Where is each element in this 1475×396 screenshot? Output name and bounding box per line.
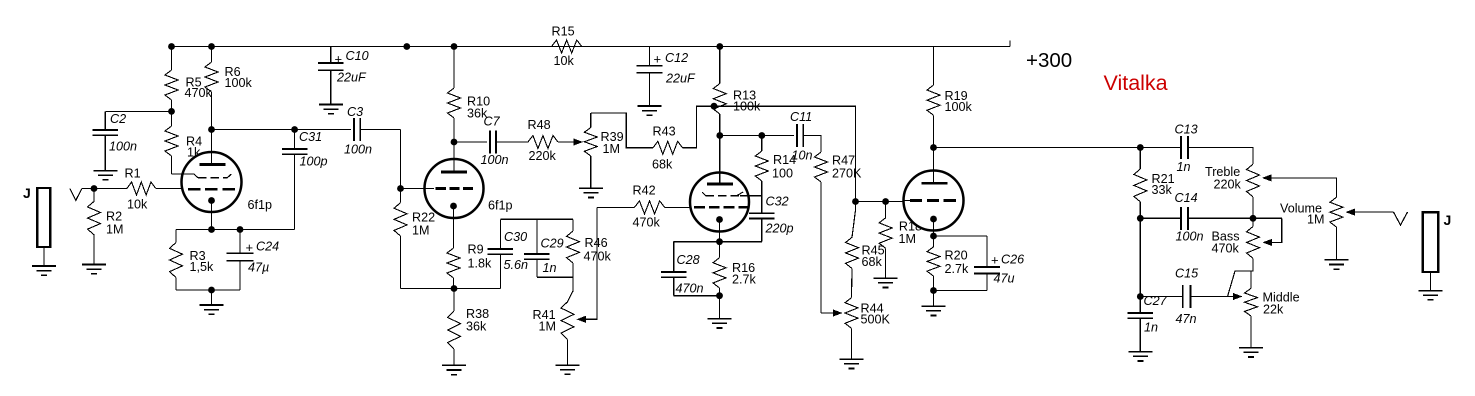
svg-text:C11: C11 xyxy=(790,110,812,124)
wire C28 bottom row xyxy=(674,295,720,297)
svg-text:Vitalka: Vitalka xyxy=(1104,71,1168,95)
label C28 xyxy=(676,253,704,296)
resistor R47 xyxy=(815,152,828,313)
svg-text:2.7k: 2.7k xyxy=(732,273,757,287)
label R14 xyxy=(772,153,796,181)
wire input node xyxy=(82,188,127,190)
svg-text:100k: 100k xyxy=(225,76,253,90)
wire Bass to Middle top xyxy=(1228,258,1254,296)
tube U1 plate xyxy=(200,130,226,165)
label R48 xyxy=(528,118,557,163)
wiper arrow R44 xyxy=(833,309,843,316)
label C32 xyxy=(765,195,794,236)
resistor R10 xyxy=(448,47,461,143)
node input xyxy=(91,185,98,192)
wire C13 to Treble xyxy=(1188,148,1253,165)
capacitor C2 xyxy=(93,111,119,170)
node R13 tap xyxy=(711,103,718,110)
wiper arrow R39 xyxy=(574,138,584,145)
tube U4 envelope xyxy=(904,171,964,231)
svg-text:R9: R9 xyxy=(468,243,484,257)
wiper R41 wire xyxy=(586,207,597,319)
wire R48 to wiper R39 xyxy=(558,141,574,143)
label Bass xyxy=(1212,230,1240,256)
label R10 xyxy=(467,95,490,121)
wire C11 to R47 xyxy=(803,136,821,153)
node plate4 xyxy=(930,144,937,151)
label R41 xyxy=(533,308,557,334)
label R4 xyxy=(186,135,202,160)
tube U3 control grid xyxy=(694,206,749,209)
label C15 xyxy=(1175,267,1199,327)
label R44 xyxy=(861,302,891,327)
label +300 xyxy=(1026,49,1072,72)
ground R20 xyxy=(922,306,946,315)
svg-text:36k: 36k xyxy=(466,320,487,334)
wiper Volume wire xyxy=(1355,211,1394,213)
wiper arrow Treble xyxy=(1262,174,1272,181)
wire R13 tap to R45 xyxy=(714,106,856,201)
svg-text:22uF: 22uF xyxy=(336,71,367,85)
resistor R5 xyxy=(165,47,178,112)
node rail-R13 xyxy=(716,43,723,50)
terminal V output xyxy=(1394,212,1408,225)
resistor R14 xyxy=(755,136,768,196)
svg-text:100n: 100n xyxy=(1176,230,1204,244)
terminal V input xyxy=(70,189,82,201)
tube U2 grid xyxy=(425,188,474,190)
capacitor C31 xyxy=(282,130,308,230)
wire cathode1 row xyxy=(176,229,295,231)
jack J output xyxy=(1423,212,1438,290)
svg-text:R22: R22 xyxy=(412,211,435,225)
svg-text:C28: C28 xyxy=(677,253,700,267)
label R15 xyxy=(552,25,575,69)
svg-text:1.8k: 1.8k xyxy=(468,257,493,271)
svg-text:220p: 220p xyxy=(765,222,794,236)
node cathode1 gnd xyxy=(208,287,215,294)
pot Volume xyxy=(1330,197,1343,259)
svg-text:C3: C3 xyxy=(347,105,363,119)
label C14 xyxy=(1175,191,1204,244)
ground R41 xyxy=(556,365,580,374)
node R21 top xyxy=(1137,144,1144,151)
svg-text:J: J xyxy=(1444,212,1452,228)
wiper Bass wire xyxy=(1272,218,1282,242)
ground R39 xyxy=(579,188,603,197)
svg-text:100n: 100n xyxy=(109,140,137,154)
svg-text:+: + xyxy=(654,52,662,67)
svg-text:2.7k: 2.7k xyxy=(945,262,970,276)
ground C27 xyxy=(1128,352,1152,361)
label R1 xyxy=(125,167,149,212)
node rail-R10 xyxy=(451,43,458,50)
pot R41 xyxy=(561,302,574,365)
wiper Treble wire xyxy=(1272,178,1337,197)
node cathode1 xyxy=(208,226,215,233)
resistor R48 xyxy=(528,136,558,149)
node plate3 xyxy=(716,132,723,139)
resistor R3 xyxy=(170,230,183,291)
resistor R42 xyxy=(597,201,691,214)
ground Middle xyxy=(1239,348,1263,357)
ground C12 xyxy=(638,106,662,115)
label R46 xyxy=(584,236,612,264)
capacitor C12 xyxy=(637,47,663,106)
svg-text:+: + xyxy=(246,240,254,255)
node R45 top xyxy=(852,198,859,205)
resistor R19 xyxy=(927,47,940,148)
node R20 bottom xyxy=(930,287,937,294)
label R42 xyxy=(633,184,661,230)
svg-text:47u: 47u xyxy=(994,272,1015,286)
label Volume xyxy=(1280,202,1325,227)
wire C3 down to grid2 xyxy=(400,130,402,189)
ground C10 xyxy=(319,105,343,114)
label R13 xyxy=(733,89,761,114)
resistor R22 xyxy=(394,189,407,289)
svg-text:22k: 22k xyxy=(1263,303,1284,317)
node R14 top xyxy=(758,132,765,139)
svg-text:47n: 47n xyxy=(1176,312,1197,326)
node C31 tap xyxy=(291,126,298,133)
label C31 xyxy=(299,130,328,169)
svg-text:R15: R15 xyxy=(552,25,575,39)
svg-text:C15: C15 xyxy=(1175,267,1199,281)
wire R1 to grid xyxy=(156,188,183,190)
svg-text:100n: 100n xyxy=(481,153,509,167)
capacitor C14 xyxy=(1181,207,1188,230)
wire R46 to R41 xyxy=(568,277,574,302)
svg-text:C24: C24 xyxy=(256,240,279,254)
label C3 xyxy=(344,105,372,157)
node cathode4 xyxy=(930,233,937,240)
node rail-R6 xyxy=(208,43,215,50)
svg-text:R46: R46 xyxy=(585,236,608,250)
svg-text:68k: 68k xyxy=(652,158,673,172)
node cathode2 row xyxy=(451,285,458,292)
resistor R20 xyxy=(927,236,940,291)
capacitor C3-out node xyxy=(397,185,404,192)
tube U3 screen grid xyxy=(702,192,762,196)
label R6 xyxy=(225,65,253,90)
svg-text:6f1p: 6f1p xyxy=(248,198,273,212)
ground C2 xyxy=(93,171,117,180)
wire C7 to R48 xyxy=(496,141,528,143)
svg-text:1n: 1n xyxy=(1177,160,1191,174)
label C10 xyxy=(336,49,369,85)
label R20 xyxy=(945,249,970,277)
tube U3 envelope xyxy=(690,173,749,232)
wiper arrow Middle xyxy=(1233,293,1243,300)
svg-text:C32: C32 xyxy=(766,195,789,209)
svg-text:C12: C12 xyxy=(665,51,688,65)
tube U1 control grid xyxy=(188,188,236,191)
wiper R44 wire xyxy=(821,312,833,314)
wire R3 bottom row xyxy=(176,289,240,291)
svg-text:1M: 1M xyxy=(539,320,557,334)
wire grid4 row xyxy=(856,201,905,203)
wiper arrow Bass xyxy=(1263,239,1273,246)
label C7 xyxy=(481,115,509,168)
tube U1 envelope xyxy=(182,152,242,212)
svg-text:C31: C31 xyxy=(299,130,322,144)
svg-text:C26: C26 xyxy=(1001,253,1024,267)
svg-text:+: + xyxy=(335,52,343,67)
resistor R1 xyxy=(127,182,156,195)
ground R44 xyxy=(840,359,864,368)
wire cathode4 row xyxy=(934,235,988,237)
node C27 top xyxy=(1137,293,1144,300)
label U1 6f1p xyxy=(248,198,273,212)
tube U4 cathode xyxy=(930,216,937,236)
capacitor C15 xyxy=(1183,285,1191,308)
node rail-x406 xyxy=(403,43,410,50)
wire gnd stub R3 xyxy=(211,290,213,305)
svg-text:1M: 1M xyxy=(1307,213,1325,227)
svg-text:R47: R47 xyxy=(832,154,855,168)
wire eq top row xyxy=(500,218,573,220)
label R39 xyxy=(601,130,624,156)
label R9 xyxy=(468,243,493,271)
svg-text:100k: 100k xyxy=(945,100,973,114)
svg-text:1,5k: 1,5k xyxy=(190,260,215,274)
svg-text:R20: R20 xyxy=(945,249,968,263)
resistor R2 xyxy=(88,189,101,265)
wire R4 to screen xyxy=(172,173,195,175)
jack J input xyxy=(37,188,50,266)
node C24 top xyxy=(237,226,244,233)
svg-text:6f1p: 6f1p xyxy=(488,199,513,213)
svg-text:220k: 220k xyxy=(1214,178,1242,192)
pot R39 xyxy=(584,113,597,188)
wire R43 to R13 xyxy=(683,106,714,148)
label R18 xyxy=(899,220,923,247)
label R19 xyxy=(945,89,973,114)
resistor R4 xyxy=(165,111,178,174)
resistor R21 xyxy=(1134,148,1147,219)
label Vitalka xyxy=(1104,71,1168,95)
svg-text:470n: 470n xyxy=(676,282,704,296)
node tone mid left xyxy=(1137,215,1144,222)
tube U1 cathode xyxy=(208,197,215,229)
wire cathode4 bottom row xyxy=(934,290,988,292)
svg-text:10k: 10k xyxy=(127,198,148,212)
svg-text:C29: C29 xyxy=(541,237,564,251)
svg-text:C10: C10 xyxy=(346,49,369,63)
capacitor C32 xyxy=(749,196,775,242)
label C26 xyxy=(994,253,1025,286)
svg-text:R1: R1 xyxy=(125,167,141,181)
pot Bass xyxy=(1247,218,1260,258)
svg-text:R43: R43 xyxy=(653,125,676,139)
label U2 6f1p xyxy=(488,199,513,213)
svg-text:C14: C14 xyxy=(1175,191,1198,205)
node R16 bottom xyxy=(716,292,723,299)
svg-text:C7: C7 xyxy=(484,115,501,129)
resistor R6 xyxy=(205,47,218,130)
ground J input xyxy=(32,266,56,275)
svg-text:10k: 10k xyxy=(554,54,575,68)
capacitor C11 xyxy=(797,124,803,147)
svg-text:C13: C13 xyxy=(1175,123,1198,137)
label C30 xyxy=(504,230,529,272)
capacitor C10 xyxy=(318,47,344,105)
svg-text:470k: 470k xyxy=(633,216,661,230)
label R5 xyxy=(185,76,213,101)
svg-text:100: 100 xyxy=(772,167,793,181)
wire plate1 row xyxy=(212,129,352,131)
label R45 xyxy=(862,244,885,270)
resistor R9 xyxy=(447,248,460,289)
resistor R46 xyxy=(567,219,580,277)
label R2 xyxy=(106,210,124,237)
ground R18 xyxy=(874,278,898,287)
svg-text:R14: R14 xyxy=(773,153,796,167)
resistor R38 xyxy=(448,289,461,366)
svg-text:1M: 1M xyxy=(899,232,917,246)
wire plate3 row xyxy=(720,135,794,137)
capacitor C13 xyxy=(1181,136,1188,159)
tube U2 envelope xyxy=(425,159,484,218)
label C27 xyxy=(1144,294,1168,335)
svg-text:500K: 500K xyxy=(861,313,891,327)
svg-text:1M: 1M xyxy=(603,142,621,156)
wire C14 to Bass xyxy=(1188,217,1282,219)
node rail-R5 xyxy=(168,43,175,50)
wire B+ rail xyxy=(172,41,1011,47)
wiper arrow R41 xyxy=(577,316,587,323)
capacitor C24 xyxy=(226,230,253,291)
svg-text:100n: 100n xyxy=(344,143,372,157)
label R21 xyxy=(1152,172,1175,197)
svg-text:+300: +300 xyxy=(1026,49,1072,72)
svg-text:68k: 68k xyxy=(862,255,883,269)
svg-text:22uF: 22uF xyxy=(665,72,696,86)
wiper arrow Volume xyxy=(1346,209,1356,216)
label R47 xyxy=(832,154,862,181)
label R43 xyxy=(652,125,676,172)
svg-text:1M: 1M xyxy=(412,224,430,238)
svg-text:100p: 100p xyxy=(300,155,328,169)
label R16 xyxy=(732,261,757,287)
capacitor C29 xyxy=(524,219,550,277)
label R38 xyxy=(466,307,489,334)
wire C15 row xyxy=(1191,296,1233,298)
label R22 xyxy=(412,211,435,238)
node plate2 xyxy=(451,139,458,146)
wire cathode2 row xyxy=(401,288,501,290)
wire R39 top to R43 xyxy=(591,113,653,148)
svg-text:1M: 1M xyxy=(106,223,124,237)
node R18 top xyxy=(882,198,889,205)
svg-text:47µ: 47µ xyxy=(248,261,269,275)
label Middle xyxy=(1263,291,1300,317)
resistor R43 xyxy=(653,141,683,154)
resistor R15 xyxy=(552,40,582,53)
capacitor C30 xyxy=(488,219,514,288)
svg-text:R2: R2 xyxy=(106,210,122,224)
label C2 xyxy=(109,112,137,154)
capacitor C7 xyxy=(490,131,496,154)
tube U4 grid xyxy=(904,200,958,202)
wire tone mid row xyxy=(1140,217,1181,219)
svg-text:1n: 1n xyxy=(543,261,557,275)
svg-text:R42: R42 xyxy=(633,184,656,198)
resistor R45 xyxy=(846,202,859,298)
label J input xyxy=(23,185,31,201)
resistor R18 xyxy=(879,202,892,279)
tube U4 plate xyxy=(922,148,948,184)
label C13 xyxy=(1175,123,1198,175)
wire cathode3 row xyxy=(674,241,762,243)
pot Treble xyxy=(1247,164,1260,218)
label Treble xyxy=(1205,165,1242,192)
ground R3 xyxy=(200,305,224,314)
resistor R16 xyxy=(713,242,726,296)
svg-text:C27: C27 xyxy=(1144,294,1168,308)
pot Middle xyxy=(1245,288,1258,347)
wire eq bottom row xyxy=(537,276,573,278)
node tone mid right xyxy=(1250,215,1257,222)
svg-text:R48: R48 xyxy=(528,118,551,132)
label J output xyxy=(1444,212,1452,228)
svg-text:33k: 33k xyxy=(1152,183,1173,197)
capacitor C27 xyxy=(1128,297,1154,352)
ground R38 xyxy=(442,365,466,374)
ground R16 xyxy=(708,319,732,328)
svg-text:270K: 270K xyxy=(832,167,862,181)
wire R20 gnd stub xyxy=(933,291,935,307)
label C12 xyxy=(665,51,696,86)
wire grid2 xyxy=(401,188,426,190)
ground J output xyxy=(1419,291,1443,300)
tube U2 plate xyxy=(441,142,467,172)
capacitor C3 xyxy=(354,118,400,141)
resistor R13 xyxy=(713,47,726,136)
tube U3 plate xyxy=(707,136,733,185)
wire plate2 to C7 xyxy=(454,141,487,143)
svg-text:220k: 220k xyxy=(529,149,557,163)
node cathode3 xyxy=(716,238,723,245)
capacitor C28 xyxy=(661,242,687,296)
wire R16 gnd stub xyxy=(719,296,721,319)
pot R44 xyxy=(845,298,858,359)
capacitor C26 xyxy=(974,236,1000,291)
svg-text:C2: C2 xyxy=(110,112,126,126)
label C24 xyxy=(248,240,279,275)
svg-text:C30: C30 xyxy=(504,230,527,244)
svg-text:1n: 1n xyxy=(1144,321,1158,335)
label C29 xyxy=(541,237,564,276)
svg-text:470k: 470k xyxy=(185,86,213,100)
label R3 xyxy=(190,249,215,274)
wire C2 feed xyxy=(105,110,171,112)
ground Volume xyxy=(1324,260,1348,269)
node R5-C2-R4 xyxy=(168,108,175,115)
tube U2 cathode xyxy=(450,203,457,248)
tube U1 screen grid xyxy=(194,174,231,178)
svg-text:470k: 470k xyxy=(1212,242,1240,256)
label C11 xyxy=(790,110,813,163)
wire C27 column xyxy=(1140,218,1182,296)
node plate1 xyxy=(208,126,215,133)
tube U3 cathode xyxy=(716,216,723,242)
svg-text:+: + xyxy=(991,253,999,268)
wire plate4 to tone xyxy=(934,147,1181,149)
ground R2 xyxy=(82,265,106,274)
svg-text:J: J xyxy=(23,185,31,201)
